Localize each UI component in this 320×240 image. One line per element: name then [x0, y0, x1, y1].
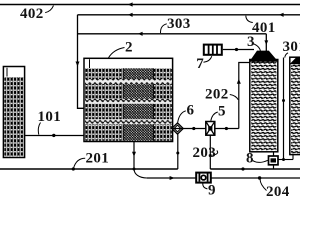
leader 303	[160, 24, 166, 33]
valve 5	[206, 122, 215, 136]
wire 402 top line	[0, 4, 300, 6]
wire 303 line	[78, 33, 267, 35]
adsorber 2	[84, 58, 173, 141]
svg-text:202: 202	[205, 87, 229, 103]
arrow on 401 line left	[128, 13, 133, 17]
svg-text:2: 2	[125, 40, 133, 56]
wire valve 6 down	[177, 134, 179, 169]
wire between columns	[283, 58, 285, 160]
leader 5	[211, 112, 218, 121]
leader 203	[212, 151, 217, 156]
svg-text:5: 5	[218, 104, 226, 120]
svg-text:201: 201	[86, 151, 110, 167]
node on blower wire	[235, 48, 238, 51]
arrow on 204	[170, 176, 175, 180]
node on between wire	[282, 99, 285, 102]
leader 201	[74, 158, 86, 168]
svg-text:8: 8	[246, 151, 254, 167]
svg-text:3: 3	[247, 34, 255, 50]
leader 7	[204, 56, 212, 62]
svg-text:401: 401	[252, 20, 276, 36]
leader 202	[230, 95, 239, 100]
svg-text:9: 9	[208, 183, 216, 199]
svg-text:204: 204	[266, 184, 290, 200]
leader 3	[254, 44, 261, 52]
arrow down on feed pipe	[76, 62, 80, 67]
node on valve wire	[192, 127, 195, 130]
column 301 right vessel	[290, 57, 301, 154]
svg-text:203: 203	[193, 145, 217, 161]
wire 202 riser	[239, 63, 250, 129]
leader 401	[246, 16, 253, 23]
leader 9	[203, 183, 208, 189]
arrow on 401 line right	[279, 13, 284, 17]
wire 401 line	[78, 14, 301, 16]
tank 1	[3, 67, 24, 158]
wire S-bend to 204	[134, 169, 147, 178]
arrow on inlet 3	[264, 40, 268, 45]
svg-text:301: 301	[283, 39, 301, 55]
wire from blower 7	[223, 49, 254, 51]
wire adsorber outlet to valves	[173, 128, 239, 130]
node on pump 8 wire	[282, 158, 285, 161]
blower 7	[204, 45, 222, 55]
node right of valve 5	[225, 127, 228, 130]
node on 203 line	[241, 167, 244, 170]
node 204 leader	[258, 176, 261, 179]
leader 2	[109, 48, 125, 58]
wire inlet 3 drop	[265, 34, 267, 51]
column 3 vessel	[249, 51, 278, 152]
svg-text:101: 101	[38, 109, 62, 125]
wire right column bottom stub	[292, 155, 294, 160]
valve 6	[172, 123, 183, 134]
leader 101	[38, 123, 40, 135]
wire 204 line	[147, 177, 300, 179]
wire 201 bottom left	[0, 168, 178, 170]
wire 101	[25, 135, 85, 137]
pump 8	[269, 152, 279, 169]
wire 203 down from valve 5	[209, 135, 211, 169]
leader 204	[260, 179, 267, 191]
leader 6	[178, 111, 186, 123]
arrow on 303 line	[138, 32, 143, 36]
leader 402	[45, 6, 53, 13]
leader 8	[253, 160, 268, 162]
arrow up on 202	[237, 79, 241, 84]
svg-text:7: 7	[196, 56, 204, 72]
arrow on 402 line	[128, 2, 133, 6]
node 201 leader attach	[72, 167, 75, 170]
svg-text:6: 6	[187, 102, 195, 118]
svg-text:303: 303	[167, 16, 191, 32]
pump 9	[196, 173, 211, 183]
wire adsorber bottom drain	[133, 142, 135, 170]
wire 203 bottom right	[210, 168, 300, 170]
arrow on drain	[132, 152, 136, 157]
svg-text:402: 402	[20, 6, 44, 22]
node drain junction	[133, 168, 136, 171]
node 203 leader attach	[209, 154, 212, 157]
node on 101	[52, 134, 55, 137]
wire feed pipe into adsorber 2	[78, 15, 85, 109]
node on valve 6 down	[176, 152, 179, 155]
leader 301	[285, 53, 288, 58]
wire pump 8 to right column	[278, 159, 293, 161]
